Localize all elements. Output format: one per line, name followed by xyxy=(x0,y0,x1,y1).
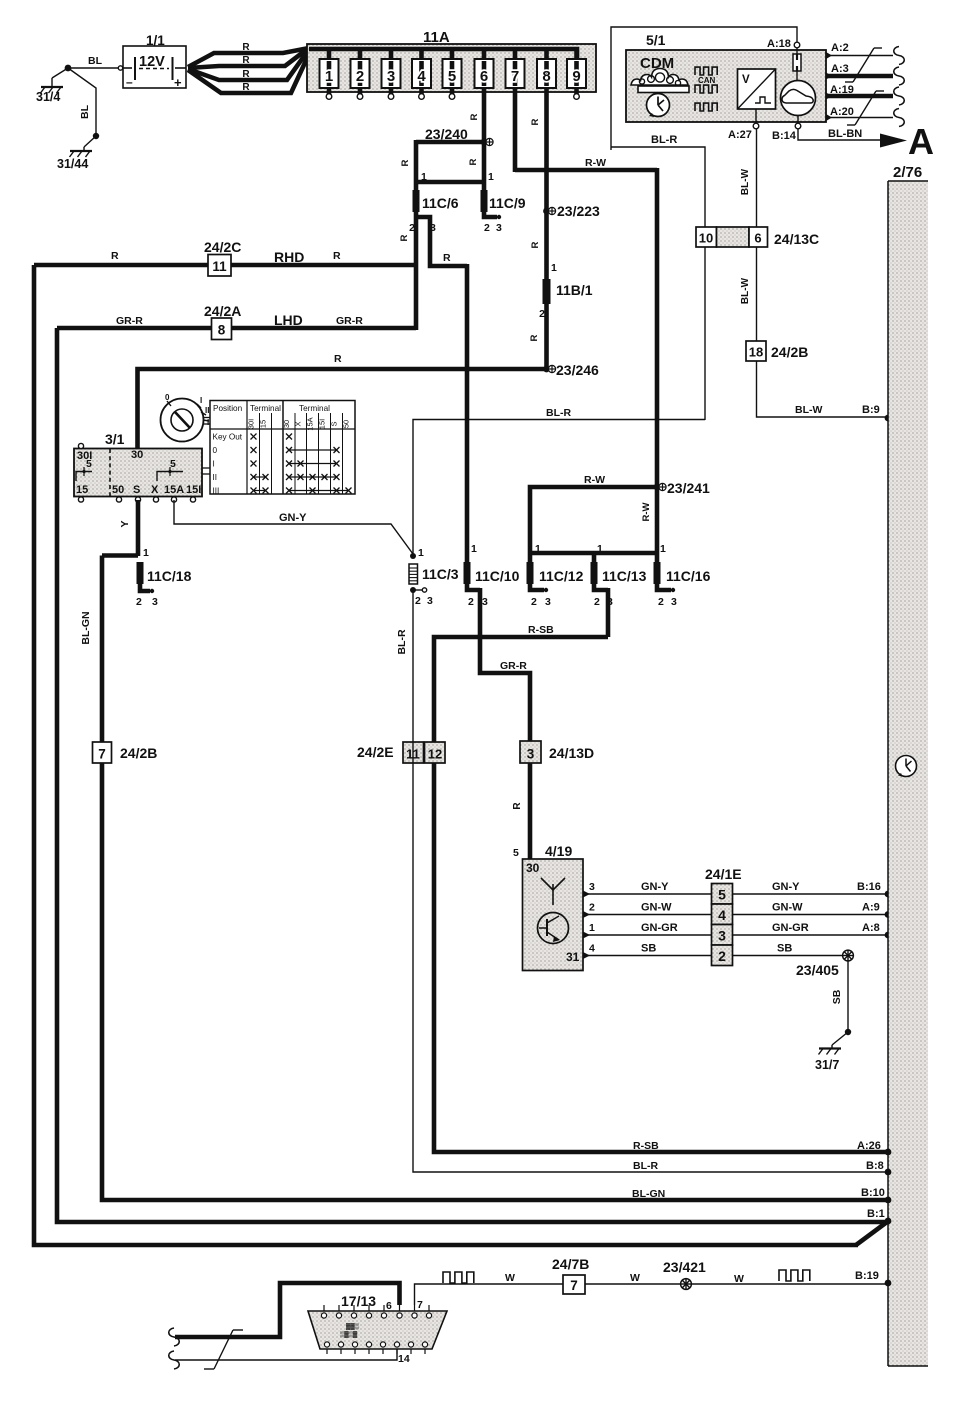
wire BL-R down xyxy=(413,590,886,1172)
svg-text:18: 18 xyxy=(749,345,763,360)
svg-text:BL-R: BL-R xyxy=(651,134,677,146)
terminal B:10 dot xyxy=(885,1197,892,1204)
svg-text:A:2: A:2 xyxy=(831,42,849,54)
svg-text:Terminal: Terminal xyxy=(299,404,330,413)
svg-text:5: 5 xyxy=(718,887,726,903)
svg-text:3: 3 xyxy=(496,222,502,234)
svg-text:Y: Y xyxy=(119,520,131,527)
svg-text:6: 6 xyxy=(480,68,488,85)
svg-text:5: 5 xyxy=(170,458,176,470)
svg-text:11C/9: 11C/9 xyxy=(489,195,526,211)
svg-text:11C/12: 11C/12 xyxy=(539,568,584,584)
module 4/19 transistor xyxy=(538,913,569,944)
fuse 9 of 11A xyxy=(574,49,579,61)
wire 4/19 pin 3 xyxy=(583,891,590,898)
junction node battery BL xyxy=(65,65,72,72)
ground 31/7 xyxy=(832,1032,848,1045)
wire BL-BN xyxy=(798,129,880,140)
svg-text:R: R xyxy=(111,250,119,262)
cable squiggle bottom xyxy=(169,1351,180,1369)
svg-text:1: 1 xyxy=(589,922,595,934)
ignition 3/1 box xyxy=(74,449,202,497)
wire 4/19 pin 4 xyxy=(583,952,590,959)
wire Y from ignition S xyxy=(136,500,141,556)
svg-text:24/2B: 24/2B xyxy=(120,745,157,761)
CDM cam icon xyxy=(631,69,688,86)
svg-text:23/246: 23/246 xyxy=(556,362,599,378)
svg-text:1: 1 xyxy=(551,262,557,274)
battery 1/1 box xyxy=(123,46,186,88)
svg-text:23/421: 23/421 xyxy=(663,1259,706,1275)
svg-text:50: 50 xyxy=(112,484,124,496)
wire BL-R from 5/1 xyxy=(611,147,705,420)
svg-text:II: II xyxy=(213,473,218,482)
svg-text:II: II xyxy=(205,406,209,415)
CDM clock icon xyxy=(647,94,670,117)
svg-text:31/4: 31/4 xyxy=(36,90,60,104)
wire fuse8 mid xyxy=(544,211,549,279)
svg-text:9: 9 xyxy=(572,68,580,85)
fuse 7 of 11A xyxy=(513,49,518,61)
module 4/19 antenna xyxy=(552,884,554,905)
wire BL to ground 31/44 xyxy=(68,68,96,136)
svg-text:W: W xyxy=(630,1272,640,1284)
svg-text:7: 7 xyxy=(417,1299,423,1311)
svg-text:R: R xyxy=(399,234,410,241)
svg-text:R: R xyxy=(242,69,250,80)
svg-text:SB: SB xyxy=(641,943,656,955)
wire SB down xyxy=(847,961,849,1032)
svg-text:GN-W: GN-W xyxy=(772,902,803,914)
svg-text:15: 15 xyxy=(76,484,88,496)
CDM CAN waves xyxy=(695,67,717,75)
wire 11C/9 pin2 stub xyxy=(484,212,497,217)
svg-text:BL: BL xyxy=(79,104,91,119)
cable squiggle top xyxy=(169,1328,180,1346)
terminal B:1 dot xyxy=(885,1218,892,1225)
svg-text:2: 2 xyxy=(415,595,421,607)
svg-text:3: 3 xyxy=(430,222,436,234)
bar clock icon xyxy=(896,756,917,777)
svg-text:2: 2 xyxy=(136,596,142,608)
splice 23/240 xyxy=(481,139,488,146)
module 5/1 body xyxy=(626,50,826,122)
svg-text:5: 5 xyxy=(86,458,92,470)
svg-text:A:27: A:27 xyxy=(728,129,752,141)
svg-text:7: 7 xyxy=(98,747,106,762)
svg-text:2: 2 xyxy=(484,222,490,234)
wire W pin7 to B:19 xyxy=(415,1284,887,1305)
svg-text:11B/1: 11B/1 xyxy=(556,282,593,298)
svg-text:Position: Position xyxy=(213,404,243,413)
svg-text:R-SB: R-SB xyxy=(528,624,554,636)
svg-text:31/44: 31/44 xyxy=(57,157,88,171)
svg-text:6: 6 xyxy=(754,231,761,246)
svg-text:24/13C: 24/13C xyxy=(774,231,819,247)
connector 11B/1 xyxy=(543,279,551,304)
svg-text:23/240: 23/240 xyxy=(425,126,468,142)
wire R-W to 11C/16 xyxy=(655,487,660,564)
wire to 11C/6 pin1 xyxy=(414,140,419,190)
svg-text:A:9: A:9 xyxy=(862,902,880,914)
wire GR-R from 11C/10 xyxy=(480,588,530,742)
connector 11C/16 xyxy=(654,562,661,584)
connector 24/13C xyxy=(696,227,717,247)
svg-text:R: R xyxy=(443,252,451,264)
wire BL-GN down xyxy=(102,556,886,1201)
svg-text:23/241: 23/241 xyxy=(667,480,710,496)
svg-text:B:1: B:1 xyxy=(867,1208,885,1220)
connector 11C/9 xyxy=(481,190,488,212)
wire RHD down left side xyxy=(34,265,858,1245)
fusebox 11A body xyxy=(307,44,596,92)
connector 17/13 pins xyxy=(323,1305,325,1311)
connector 24/2B pin 7 xyxy=(93,742,112,763)
svg-text:12: 12 xyxy=(428,747,442,762)
wire link pins1 11C/6-11C/9 xyxy=(416,180,484,185)
wire R-W splice branch xyxy=(530,487,657,564)
svg-text:A:8: A:8 xyxy=(862,922,880,934)
wire RHD diagonal to B:1 xyxy=(856,1222,887,1245)
svg-text:2: 2 xyxy=(718,948,726,964)
fusebox 11A bus wire xyxy=(309,49,577,60)
svg-text:30I: 30I xyxy=(247,419,256,429)
fuse 2 of 11A xyxy=(358,49,363,61)
wire BL battery to ground junction xyxy=(68,67,120,69)
svg-text:W: W xyxy=(505,1272,515,1284)
svg-text:31: 31 xyxy=(566,950,580,964)
svg-text:R: R xyxy=(468,158,479,165)
svg-text:1: 1 xyxy=(597,543,603,555)
svg-text:BL: BL xyxy=(88,55,103,67)
wire BL-W mid xyxy=(756,247,758,341)
svg-text:–: – xyxy=(126,75,133,89)
svg-text:30: 30 xyxy=(526,861,540,875)
svg-text:4/19: 4/19 xyxy=(545,843,572,859)
svg-text:GN-GR: GN-GR xyxy=(772,922,809,934)
ground 31/44 xyxy=(84,136,96,147)
wire LHD down left side xyxy=(57,328,886,1222)
svg-text:+: + xyxy=(174,75,182,90)
svg-text:SB: SB xyxy=(777,943,792,955)
svg-text:Terminal: Terminal xyxy=(250,404,281,413)
splice 23/223 xyxy=(543,208,550,215)
svg-text:GN-GR: GN-GR xyxy=(641,922,678,934)
node SB xyxy=(845,1029,851,1035)
svg-text:2: 2 xyxy=(594,596,600,608)
wire R battery feed 2 xyxy=(188,50,306,68)
wire R-W horizontal xyxy=(515,168,657,173)
svg-text:R: R xyxy=(529,334,540,341)
svg-text:1: 1 xyxy=(471,543,477,555)
svg-text:B:8: B:8 xyxy=(866,1160,884,1172)
svg-text:3: 3 xyxy=(427,595,433,607)
terminal B:14 xyxy=(797,116,799,124)
svg-text:3: 3 xyxy=(527,747,535,762)
svg-text:1: 1 xyxy=(660,543,666,555)
svg-text:11C/10: 11C/10 xyxy=(475,568,520,584)
wire RHD xyxy=(34,263,416,268)
svg-text:S: S xyxy=(133,484,140,496)
svg-text:A:20: A:20 xyxy=(830,106,854,118)
connector 11C/12 xyxy=(527,562,534,584)
wire 23/240 branch left xyxy=(416,140,484,145)
connector 17/13 body xyxy=(308,1311,447,1349)
svg-text:R-SB: R-SB xyxy=(633,1140,659,1152)
harness bar 2/76 xyxy=(888,181,928,1366)
wire 11C/12 pin stub xyxy=(530,584,544,590)
svg-text:11C/3: 11C/3 xyxy=(422,566,459,582)
svg-text:15A: 15A xyxy=(306,417,315,430)
svg-text:2: 2 xyxy=(356,68,364,85)
wire 4/19 pin 1 xyxy=(583,932,590,939)
svg-text:23/223: 23/223 xyxy=(557,203,600,219)
connector 11C/3 xyxy=(409,564,418,584)
svg-text:X: X xyxy=(151,484,159,496)
fuse 4 of 11A xyxy=(419,49,424,61)
wire link 11C pins1 xyxy=(530,551,657,556)
svg-text:3: 3 xyxy=(671,596,677,608)
svg-text:2: 2 xyxy=(658,596,664,608)
svg-text:2/76: 2/76 xyxy=(893,164,922,181)
svg-text:2: 2 xyxy=(539,308,545,320)
svg-text:B:16: B:16 xyxy=(857,881,881,893)
ignition key cylinder xyxy=(161,399,204,442)
wire 11C/10 pins stub xyxy=(467,584,480,590)
connector 11C/13 xyxy=(591,562,598,584)
svg-text:GN-Y: GN-Y xyxy=(279,512,307,524)
svg-text:4: 4 xyxy=(718,907,726,923)
connector 24/2B pin 18 xyxy=(746,341,766,361)
svg-text:1: 1 xyxy=(418,547,424,559)
wire R down to 11C/10 xyxy=(465,264,470,564)
svg-text:BL-R: BL-R xyxy=(396,629,408,654)
terminal A:26 dot xyxy=(885,1149,892,1156)
svg-text:30: 30 xyxy=(131,449,143,461)
splice 23/405 xyxy=(843,950,854,961)
svg-text:11: 11 xyxy=(212,259,227,274)
svg-text:1: 1 xyxy=(143,547,149,559)
svg-text:B:19: B:19 xyxy=(855,1270,879,1282)
svg-text:8: 8 xyxy=(542,68,550,85)
svg-text:GN-Y: GN-Y xyxy=(772,881,800,893)
wire 11C/6 pin2 down xyxy=(414,212,419,330)
svg-text:15I: 15I xyxy=(318,419,327,429)
splice 23/241 xyxy=(654,484,661,491)
svg-text:BL-GN: BL-GN xyxy=(632,1188,665,1200)
module 4/19 box xyxy=(523,859,584,971)
svg-text:7: 7 xyxy=(511,68,519,85)
terminal B:8 dot xyxy=(885,1169,892,1176)
svg-text:50: 50 xyxy=(342,420,351,428)
pair mark 17/13 xyxy=(204,1368,214,1370)
ignition position table xyxy=(210,401,355,495)
svg-text:10: 10 xyxy=(699,231,713,246)
svg-text:24/13D: 24/13D xyxy=(549,745,594,761)
pair mark A:19/A:20 xyxy=(847,124,855,126)
svg-text:4: 4 xyxy=(589,943,595,955)
svg-text:X: X xyxy=(294,421,303,426)
wire BL-W to B:9 xyxy=(757,361,887,417)
svg-text:24/1E: 24/1E xyxy=(705,866,742,882)
wire 11B/1 pin2 down xyxy=(544,304,549,369)
svg-text:BL-R: BL-R xyxy=(633,1160,658,1172)
svg-text:2: 2 xyxy=(589,902,595,914)
svg-text:11C/13: 11C/13 xyxy=(602,568,647,584)
svg-text:30: 30 xyxy=(282,420,291,428)
svg-text:▓▓▒: ▓▓▒ xyxy=(346,1323,360,1330)
ground 31/4 xyxy=(41,86,63,88)
wire BL-R vertical xyxy=(413,420,705,557)
wire R to 4/19 xyxy=(528,763,533,861)
svg-text:R-W: R-W xyxy=(584,474,605,486)
svg-text:BL-BN: BL-BN xyxy=(828,128,862,140)
svg-text:Key Out: Key Out xyxy=(213,433,243,442)
terminal B:19 dot xyxy=(885,1280,892,1287)
terminal B:9 dot xyxy=(885,415,892,422)
svg-text:24/7B: 24/7B xyxy=(552,1256,589,1272)
svg-text:R: R xyxy=(530,241,541,248)
svg-text:5/1: 5/1 xyxy=(646,32,666,48)
svg-text:R-W: R-W xyxy=(641,502,652,521)
ignition 3/1 bottom pins xyxy=(78,497,83,502)
svg-text:3: 3 xyxy=(387,68,395,85)
wire LHD xyxy=(57,326,416,331)
svg-text:R-W: R-W xyxy=(585,157,606,169)
splice 23/246 xyxy=(543,366,550,373)
svg-text:R: R xyxy=(242,55,250,66)
svg-text:15A: 15A xyxy=(164,484,184,496)
wire BL-W from A:27 xyxy=(756,129,758,228)
svg-text:3: 3 xyxy=(718,928,726,944)
connector 11C/10 xyxy=(464,562,471,584)
svg-text:B:9: B:9 xyxy=(862,404,880,416)
CDM V-converter box xyxy=(738,69,776,109)
svg-text:BL-W: BL-W xyxy=(795,404,822,416)
fuse 8 of 11A xyxy=(544,49,549,61)
wire fuse8 down xyxy=(544,88,549,213)
connector 24/13D pin 3 xyxy=(520,741,541,763)
pair mark A:2/A:3 xyxy=(845,81,853,83)
svg-text:GN-W: GN-W xyxy=(641,902,672,914)
svg-text:BL-W: BL-W xyxy=(740,277,751,304)
svg-text:A:18: A:18 xyxy=(767,38,791,50)
battery terminal circle xyxy=(118,66,122,70)
svg-text:BL-W: BL-W xyxy=(740,168,751,195)
wire GN-Y xyxy=(174,500,413,554)
arrow A xyxy=(880,134,907,148)
svg-text:11C/18: 11C/18 xyxy=(147,568,192,584)
svg-text:3: 3 xyxy=(482,596,488,608)
svg-text:S: S xyxy=(330,421,339,426)
svg-text:SB: SB xyxy=(831,989,843,1004)
svg-text:11C/6: 11C/6 xyxy=(422,195,459,211)
connector 11C/3 pin1 xyxy=(410,553,416,559)
wire thin to pin 14 xyxy=(175,1349,397,1360)
square wave left xyxy=(443,1272,474,1283)
wire R to ignition 30 xyxy=(138,369,547,450)
wire 11C/13 pin stub xyxy=(594,584,608,590)
svg-text:A: A xyxy=(908,121,934,162)
svg-text:0: 0 xyxy=(165,393,170,402)
svg-text:24/2C: 24/2C xyxy=(204,239,241,255)
svg-text:14: 14 xyxy=(398,1353,410,1365)
svg-text:GR-R: GR-R xyxy=(116,315,143,327)
svg-text:4: 4 xyxy=(417,68,426,85)
wire R fuse6 down xyxy=(482,88,487,190)
svg-text:▒▓▒▓: ▒▓▒▓ xyxy=(340,1331,358,1338)
svg-text:12V: 12V xyxy=(139,54,165,70)
fuse 1 of 11A xyxy=(327,49,332,61)
svg-text:RHD: RHD xyxy=(274,249,304,265)
svg-text:BL-GN: BL-GN xyxy=(80,611,92,644)
square wave right xyxy=(779,1270,810,1281)
wire 11C/13 pin1 stub xyxy=(592,553,597,564)
svg-text:1: 1 xyxy=(421,171,427,183)
svg-text:0: 0 xyxy=(213,446,218,455)
svg-text:CAN: CAN xyxy=(698,76,716,85)
wire 11C/13 down xyxy=(606,588,611,637)
wire 11C/16 pin stub xyxy=(657,584,671,590)
svg-text:I: I xyxy=(213,460,215,469)
svg-text:2: 2 xyxy=(468,596,474,608)
svg-text:A:3: A:3 xyxy=(831,63,849,75)
connector 11C/3 pin2 xyxy=(410,587,416,593)
svg-text:24/2A: 24/2A xyxy=(204,303,241,319)
svg-text:5: 5 xyxy=(448,68,456,85)
wire BL-GN branch xyxy=(102,553,138,558)
key to table links xyxy=(203,417,210,419)
svg-text:R: R xyxy=(530,118,541,125)
connector 11C/6 xyxy=(413,190,420,212)
svg-text:BL-R: BL-R xyxy=(546,407,571,419)
svg-text:7: 7 xyxy=(570,1278,578,1293)
svg-text:LHD: LHD xyxy=(274,312,303,328)
svg-text:23/405: 23/405 xyxy=(796,962,839,978)
svg-text:3: 3 xyxy=(589,881,595,893)
wire A:18 loop xyxy=(611,27,797,150)
ignition 3/1 divider xyxy=(109,449,111,496)
svg-text:1: 1 xyxy=(535,543,541,555)
svg-text:R: R xyxy=(333,250,341,262)
svg-text:I: I xyxy=(200,396,202,405)
svg-text:GN-Y: GN-Y xyxy=(641,881,669,893)
terminal A:27 xyxy=(755,109,757,123)
connector 11C/18 xyxy=(137,562,144,584)
connector 17/13 inner marks xyxy=(340,1323,360,1338)
svg-text:2: 2 xyxy=(409,222,415,234)
svg-text:24/2B: 24/2B xyxy=(771,344,808,360)
junction node 31/44 wire xyxy=(93,133,99,139)
svg-text:R: R xyxy=(242,82,250,93)
wire 11C/18 pin2 stub xyxy=(140,584,150,591)
ignition to table links xyxy=(202,467,210,469)
wire R battery feed 4 xyxy=(188,54,309,93)
svg-text:6: 6 xyxy=(386,1300,392,1312)
svg-text:R: R xyxy=(334,353,342,365)
wire R battery feed 1 xyxy=(188,48,309,67)
svg-text:R: R xyxy=(400,159,411,166)
svg-text:5: 5 xyxy=(513,847,519,859)
svg-text:3: 3 xyxy=(545,596,551,608)
svg-text:GR-R: GR-R xyxy=(336,315,363,327)
wire 11C/6 pin3 branch xyxy=(416,217,467,266)
svg-text:15I: 15I xyxy=(186,484,201,496)
svg-text:3/1: 3/1 xyxy=(105,431,125,447)
svg-text:V: V xyxy=(742,74,750,86)
svg-text:2: 2 xyxy=(531,596,537,608)
svg-text:11C/16: 11C/16 xyxy=(666,568,711,584)
